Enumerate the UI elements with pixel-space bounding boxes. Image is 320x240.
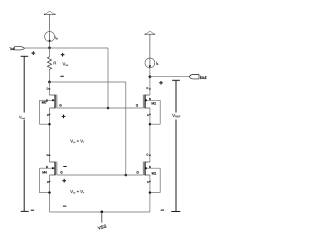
svg-text:D: D: [47, 154, 49, 157]
svg-text:M1: M1: [152, 172, 157, 176]
svg-text:D: D: [147, 87, 149, 90]
svg-text:S: S: [147, 181, 149, 184]
svg-text:R: R: [53, 61, 56, 66]
svg-text:S: S: [147, 114, 149, 117]
svg-text:D: D: [47, 87, 49, 90]
svg-text:S: S: [47, 114, 49, 117]
svg-text:D: D: [147, 153, 149, 156]
svg-text:S: S: [47, 181, 49, 184]
svg-text:Iout: Iout: [200, 75, 208, 80]
svg-text:M2: M2: [151, 101, 156, 105]
svg-text:M0: M0: [42, 101, 47, 105]
svg-text:B: B: [46, 165, 48, 169]
svg-text:Tail: Tail: [9, 47, 14, 51]
svg-text:B: B: [149, 165, 151, 169]
svg-text:M4: M4: [42, 171, 47, 175]
svg-text:Vov + VT: Vov + VT: [70, 138, 85, 144]
svg-text:Vov + VT: Vov + VT: [70, 189, 85, 195]
